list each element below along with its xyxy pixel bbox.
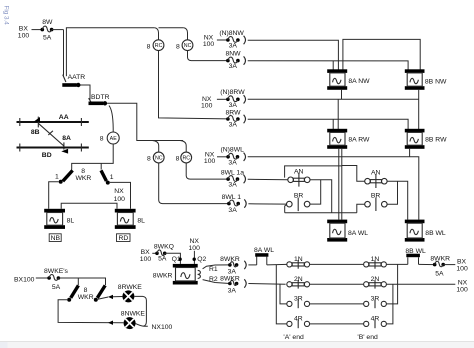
- node NX 100 (lamp): [114, 188, 126, 203]
- svg-text:3A: 3A: [228, 159, 237, 166]
- svg-text:BX100: BX100: [14, 276, 35, 283]
- lamp transformer 8L (right): [115, 209, 145, 229]
- svg-text:Q2: Q2: [197, 256, 206, 263]
- point machine 8A NW: [327, 69, 370, 89]
- connector: [244, 115, 246, 123]
- wires between A and B columns: [310, 263, 364, 265]
- svg-text:8WKE's: 8WKE's: [44, 268, 69, 275]
- wire to BX 100: [444, 264, 456, 266]
- svg-text:(N)8RW: (N)8RW: [220, 89, 245, 96]
- svg-text:R1: R1: [209, 266, 218, 273]
- contact BDTR (track relay front contact): [89, 94, 110, 106]
- svg-text:BX: BX: [141, 249, 151, 256]
- node BX 100 (right): [456, 259, 468, 273]
- contact 8 WKR (right, R): [75, 168, 113, 184]
- relay contact 8 NC (lower): [147, 152, 164, 163]
- fuse 8WKE's 5A: [44, 268, 69, 291]
- wire: [52, 29, 64, 31]
- lamp transformer 8L (left): [44, 209, 74, 229]
- wire NC down to 8NW row: [188, 51, 228, 61]
- svg-text:8WKR: 8WKR: [220, 256, 240, 263]
- svg-text:BX: BX: [457, 259, 467, 266]
- svg-text:8WL 1a: 8WL 1a: [221, 170, 244, 177]
- svg-text:3A: 3A: [229, 122, 238, 129]
- svg-text:8WL 1: 8WL 1: [222, 194, 242, 201]
- fuse (N)8NW 3A: [219, 30, 244, 50]
- lamp 8RWKE: [118, 284, 143, 302]
- node NX 100 (row 1): [203, 34, 215, 48]
- wire RC down to 8RW row: [159, 51, 228, 119]
- connector: [244, 175, 246, 183]
- contact 8 WKR (lamp, left): [67, 285, 94, 301]
- svg-text:8: 8: [147, 43, 151, 50]
- node BX 100 (top left feed): [18, 25, 30, 39]
- contact AN (A end, closed): [288, 169, 310, 187]
- figure label Fig 3.4: [3, 6, 10, 26]
- wire AN right to BR right tie: [310, 180, 332, 213]
- relay contact 8 RC (lower): [176, 152, 192, 163]
- wire curve to 8 AE: [109, 106, 113, 132]
- wire 2N B to NX 100 and 4R: [387, 283, 456, 285]
- connector: [244, 261, 246, 269]
- svg-text:WKR: WKR: [78, 294, 94, 301]
- svg-text:8RWKE: 8RWKE: [118, 284, 143, 291]
- wire Q1: [165, 253, 180, 264]
- wire (N)8RW to machines: [248, 98, 419, 100]
- wire lamps to NX100: [134, 296, 146, 326]
- svg-text:(N)8WL: (N)8WL: [220, 146, 244, 153]
- svg-text:3A: 3A: [228, 269, 237, 276]
- svg-text:100: 100: [201, 102, 213, 109]
- wire: [217, 98, 228, 100]
- contact 8B WL: [405, 248, 426, 264]
- wire: [217, 156, 228, 158]
- svg-text:8A RW: 8A RW: [348, 137, 370, 144]
- wire R2 row to 2N and 3R: [248, 283, 285, 286]
- connector: [244, 153, 246, 161]
- contact 2N (A end, closed): [287, 276, 310, 289]
- svg-text:5A: 5A: [435, 271, 444, 278]
- fuse (N)8WL 3A: [220, 146, 244, 166]
- svg-text:3A: 3A: [228, 182, 237, 189]
- svg-text:8B NW: 8B NW: [425, 79, 447, 86]
- point machine 8B NW: [405, 69, 447, 89]
- wire 8WL 1a to AN contact: [248, 178, 288, 181]
- wire BR left (B end) drop to bus: [357, 204, 365, 213]
- wire: [152, 252, 157, 254]
- svg-text:1: 1: [55, 174, 59, 181]
- wire 8RW to machines: [248, 119, 408, 129]
- fuse 8WKR 5A (right): [430, 255, 450, 277]
- svg-text:8A NW: 8A NW: [348, 78, 370, 85]
- contact 3R (A end, open): [287, 296, 310, 309]
- fuse 8WL 1 3A: [222, 194, 242, 214]
- wire (N)8WL to machines: [248, 157, 419, 220]
- svg-text:NX: NX: [189, 238, 199, 245]
- svg-text:BDTR: BDTR: [91, 94, 110, 101]
- svg-text:WKR: WKR: [75, 175, 91, 182]
- svg-text:8RW: 8RW: [226, 109, 242, 116]
- contact AN (B end, closed): [365, 170, 387, 189]
- svg-text:8WKR: 8WKR: [220, 276, 240, 283]
- wire: [59, 278, 106, 285]
- contact 8 WKR (left, N): [55, 170, 73, 183]
- wire right WKR to lamp transformer 8L: [110, 182, 131, 208]
- svg-text:100: 100: [456, 266, 468, 273]
- point machine 8B WL: [405, 220, 446, 242]
- wire AN right to 8B WL and BR tie: [387, 181, 408, 219]
- wire R1 row to 8A WL contact: [248, 264, 256, 266]
- svg-text:3A: 3A: [228, 287, 237, 294]
- svg-text:8B WL: 8B WL: [425, 230, 446, 237]
- wire left WKR to lamp transformer 8L: [49, 182, 59, 209]
- fuse 8RW 3A: [226, 109, 242, 128]
- contact BR (A end, open): [287, 192, 310, 211]
- svg-text:8A WL: 8A WL: [348, 230, 368, 237]
- svg-text:'A' end: 'A' end: [283, 334, 304, 341]
- wire 8WL 1 to BR contact: [248, 203, 286, 205]
- wire 8B RW return: [409, 149, 411, 157]
- svg-text:NX: NX: [458, 280, 468, 287]
- contact 8 WKR (lamp, right): [94, 285, 105, 301]
- svg-text:NX100: NX100: [152, 324, 173, 331]
- point machine 8A WL: [327, 220, 368, 242]
- node NX 100 (right): [456, 280, 468, 294]
- svg-text:3A: 3A: [229, 43, 238, 50]
- svg-text:R2: R2: [209, 276, 218, 283]
- wire to lower relay circles: [107, 103, 183, 140]
- wire: [217, 39, 228, 41]
- contact 1N (B end, closed): [364, 256, 387, 269]
- contact 4R (B end, open): [364, 316, 387, 329]
- svg-text:100: 100: [114, 196, 126, 203]
- contact 4R (A end, open): [287, 316, 310, 329]
- wire NC lower to 8WL 1 fuse: [159, 163, 229, 204]
- fuse 8W 5A: [41, 19, 54, 41]
- wire Q2: [193, 251, 195, 264]
- contact 8 AE: [100, 132, 119, 144]
- svg-text:RC: RC: [155, 43, 163, 49]
- node BX100 (lamp feed): [14, 276, 35, 283]
- svg-text:RC: RC: [182, 156, 190, 162]
- svg-text:AA: AA: [59, 114, 69, 121]
- wire bus: [285, 212, 357, 214]
- relay 8WKR: [153, 264, 201, 285]
- wire AN bypass bracket (A end): [285, 166, 342, 178]
- svg-text:Q1: Q1: [172, 256, 181, 263]
- svg-text:8B RW: 8B RW: [425, 137, 447, 144]
- connector: [244, 279, 246, 287]
- svg-text:100: 100: [203, 41, 215, 48]
- svg-text:8NW: 8NW: [225, 50, 241, 57]
- svg-text:8: 8: [147, 155, 151, 162]
- wire BR left drop to bus: [285, 205, 287, 213]
- svg-text:AE: AE: [110, 136, 118, 142]
- svg-text:100: 100: [18, 32, 30, 39]
- wire: [419, 263, 435, 265]
- fuse 8WKR 3A (R2): [220, 276, 240, 295]
- track layout sketch: [17, 114, 89, 159]
- svg-text:8WKR: 8WKR: [153, 272, 173, 279]
- svg-text:8WKR: 8WKR: [430, 255, 450, 262]
- relay contact 8 NC (top): [159, 28, 193, 51]
- svg-text:NX: NX: [114, 188, 124, 195]
- svg-text:8: 8: [176, 43, 180, 50]
- svg-text:NC: NC: [155, 156, 163, 162]
- node NX 100 (row 3): [204, 151, 216, 165]
- svg-text:8WKQ: 8WKQ: [154, 244, 174, 251]
- fuse (N)8RW 3A: [220, 89, 245, 109]
- tag NB: [49, 234, 61, 242]
- fuse 8WKR 3A (R1): [220, 256, 240, 276]
- wire R1: [203, 265, 230, 269]
- wire R2: [203, 280, 230, 284]
- relay contact 8 RC (top): [147, 28, 164, 51]
- svg-text:AATR: AATR: [68, 74, 86, 81]
- svg-text:8A WL: 8A WL: [254, 247, 274, 254]
- arrow on 8NWKE wire: [108, 321, 113, 325]
- track BD: [17, 146, 89, 148]
- wire machine returns to row 2: [341, 90, 343, 100]
- contact 1N (A end, closed): [287, 256, 310, 269]
- wire (drop to AATR arm, double line): [63, 30, 65, 76]
- point machine 8B RW: [405, 129, 447, 149]
- wire left contact to 8NWKE lamp: [58, 300, 124, 323]
- connector: [244, 56, 246, 64]
- svg-text:NC: NC: [184, 43, 192, 49]
- fuse 8WKQ 5A: [154, 244, 174, 263]
- svg-text:8L: 8L: [137, 218, 145, 225]
- svg-text:8: 8: [84, 287, 88, 294]
- wire 8A RW return / 8A WL feed verticals: [338, 149, 340, 220]
- connector: [244, 36, 246, 44]
- svg-text:BD: BD: [42, 152, 52, 159]
- point machine 8A RW: [327, 129, 370, 149]
- wire (N)8NW to machines: [248, 40, 339, 71]
- svg-text:100: 100: [189, 245, 201, 252]
- connector: [244, 199, 246, 207]
- wire right contact to 8RWKE lamp: [98, 297, 108, 299]
- svg-text:(N)8NW: (N)8NW: [219, 30, 244, 37]
- svg-text:8: 8: [176, 155, 180, 162]
- node BX 100 (WKR feed): [140, 249, 152, 263]
- tag RD: [117, 234, 131, 242]
- connector: [244, 95, 246, 103]
- contact BR (B end, open): [365, 192, 387, 211]
- svg-text:'B' end: 'B' end: [357, 334, 378, 341]
- svg-text:8B: 8B: [31, 129, 40, 136]
- contact 3R (B end, open): [364, 296, 387, 309]
- crossover: [38, 123, 64, 146]
- fuse 8WL 1a 3A: [221, 170, 244, 189]
- track AA: [17, 121, 89, 123]
- wire 1N B to 8B WL contact and 3R: [387, 263, 408, 265]
- contact 2N (B end, closed): [364, 276, 387, 289]
- fuse 8NW 3A: [225, 50, 241, 70]
- svg-text:8W: 8W: [42, 19, 53, 26]
- svg-text:8NWKE: 8NWKE: [121, 310, 146, 317]
- wire cross tie between 8L transformers: [61, 203, 117, 209]
- lamp 8NWKE: [121, 310, 146, 329]
- points 8B mark: [37, 117, 39, 128]
- node NX 100 (relay): [189, 238, 201, 252]
- svg-text:8L: 8L: [67, 218, 75, 225]
- bottom window strip: [0, 342, 474, 348]
- svg-text:8: 8: [100, 135, 104, 142]
- svg-text:5A: 5A: [52, 284, 61, 291]
- svg-text:8A: 8A: [62, 135, 71, 142]
- svg-text:3A: 3A: [229, 63, 238, 70]
- contact 8A WL: [254, 247, 274, 265]
- node NX 100 (row 2): [201, 96, 213, 110]
- svg-text:NB: NB: [51, 235, 61, 242]
- svg-text:RD: RD: [118, 235, 128, 242]
- svg-text:100: 100: [140, 256, 152, 263]
- svg-text:1: 1: [110, 174, 114, 181]
- wire AN bypass bracket (B end): [342, 166, 365, 182]
- svg-text:100: 100: [204, 158, 216, 165]
- svg-text:Fig 3.4: Fig 3.4: [3, 6, 10, 26]
- wire to 1N and 4R: [267, 263, 287, 266]
- svg-text:5A: 5A: [158, 256, 167, 263]
- svg-text:3A: 3A: [228, 207, 237, 214]
- svg-text:5A: 5A: [43, 35, 52, 42]
- wire: [81, 85, 91, 100]
- wire: [32, 29, 43, 31]
- wire 8NW to machines: [248, 61, 408, 71]
- contact AATR (track relay front contact): [62, 74, 85, 87]
- wire RC lower to 8WL 1a fuse: [186, 163, 228, 179]
- wire: [36, 277, 49, 279]
- svg-text:3A: 3A: [229, 102, 238, 109]
- wire 8 AE down to WKR contacts: [72, 144, 114, 169]
- svg-text:100: 100: [456, 287, 468, 294]
